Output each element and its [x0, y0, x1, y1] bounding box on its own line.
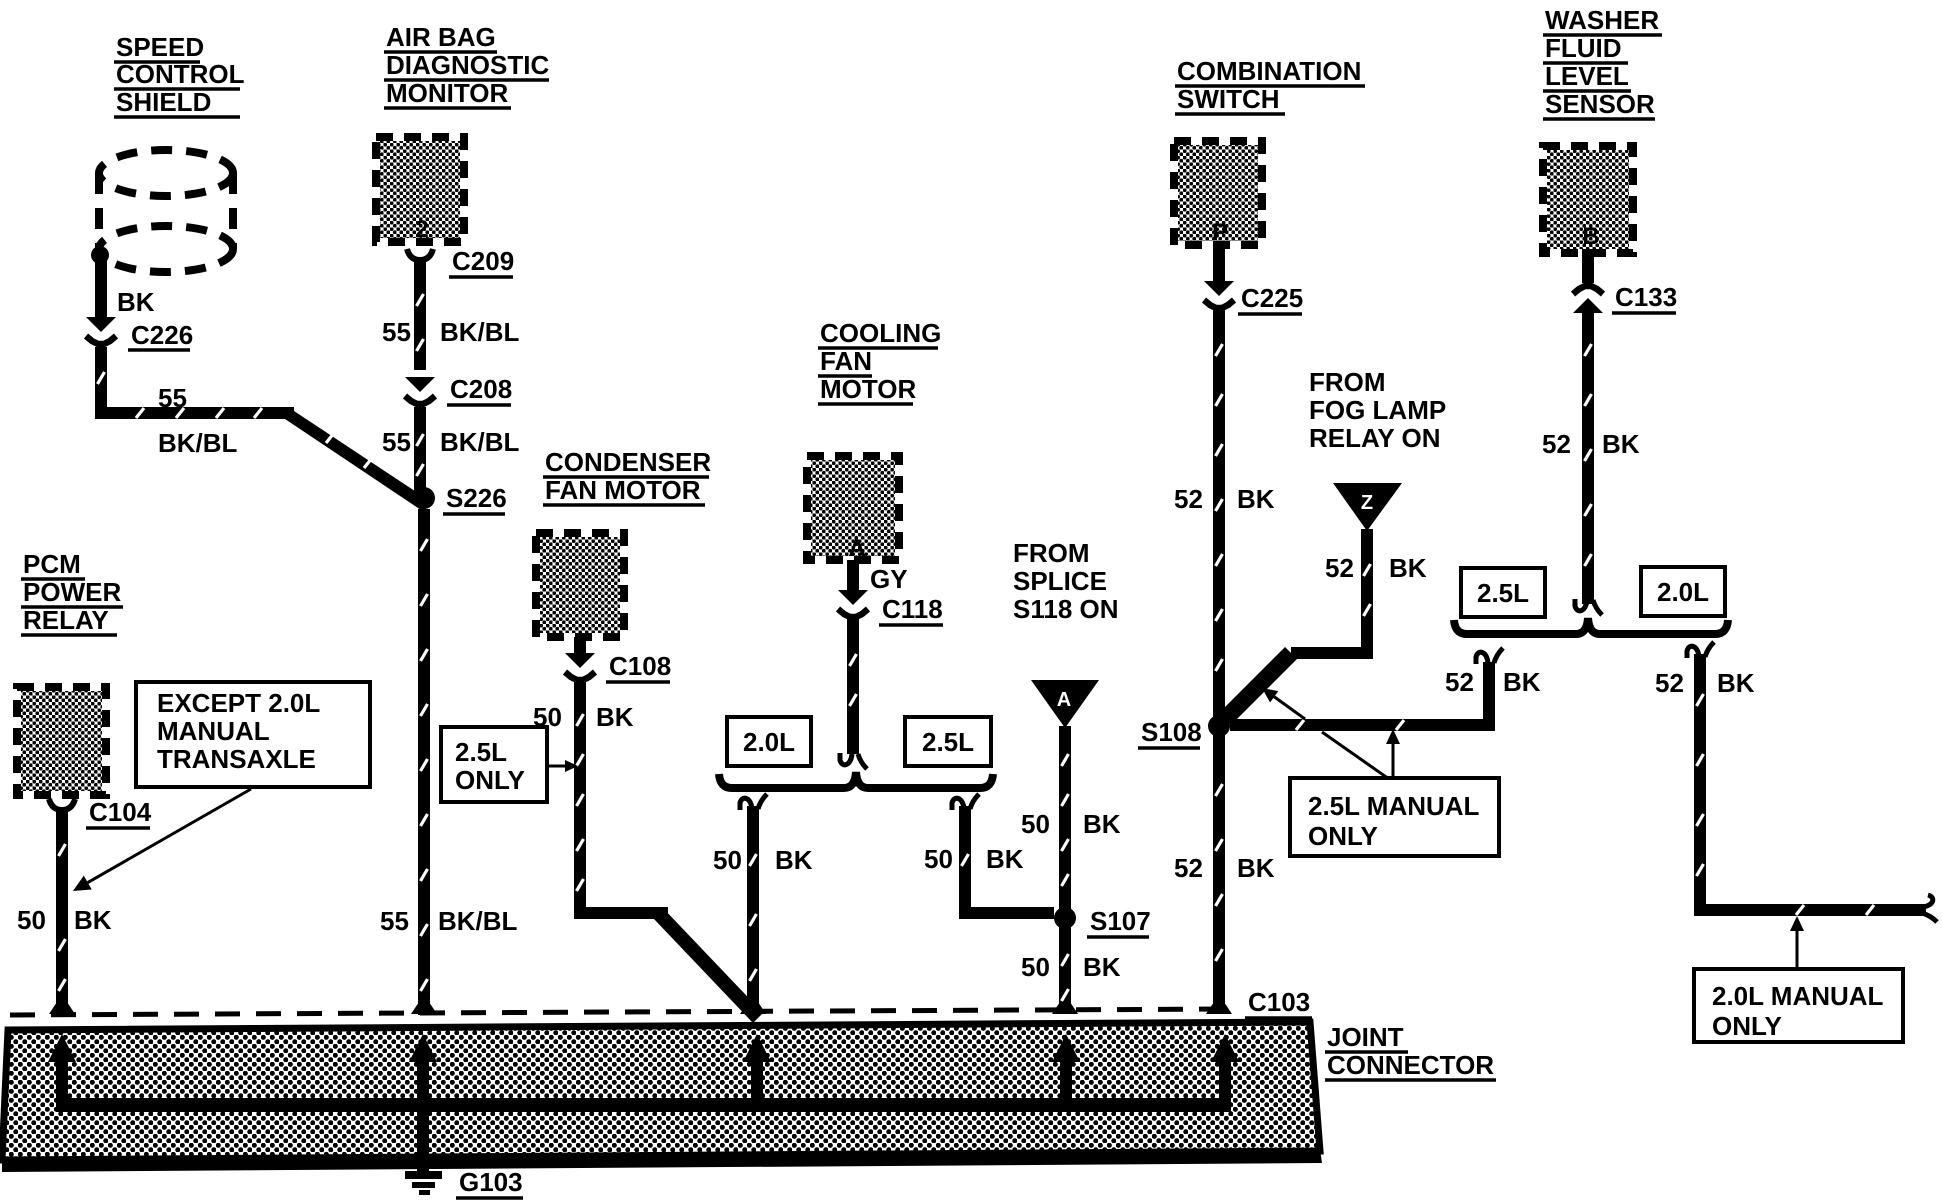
svg-text:2: 2 — [415, 216, 428, 243]
connector C226 — [86, 317, 193, 350]
svg-text:C226: C226 — [131, 320, 193, 350]
splice S226 — [413, 483, 507, 514]
wire: triangle Z down / left / diagonal to S108 — [1219, 529, 1371, 725]
svg-text:55: 55 — [382, 317, 411, 347]
svg-text:FROM: FROM — [1309, 367, 1386, 397]
label 52 (Z wire) — [1325, 553, 1354, 583]
joint connector body — [2, 1022, 1322, 1172]
label 50 (C108 wire) — [533, 702, 562, 732]
connector C225 — [1204, 245, 1303, 314]
svg-text:MONITOR: MONITOR — [386, 78, 509, 108]
svg-text:2.0L: 2.0L — [743, 727, 795, 757]
wire: C208 to S226 — [414, 407, 426, 492]
svg-text:BK: BK — [1717, 668, 1755, 698]
wire: S108 down to joint connector — [1213, 733, 1225, 1014]
svg-text:ONLY: ONLY — [1712, 1011, 1782, 1041]
callout: 2.5L ONLY — [441, 727, 578, 802]
wire: S226 down to joint connector — [418, 509, 430, 1015]
label BK/BL (C209 wire) — [440, 317, 520, 347]
svg-text:C225: C225 — [1241, 283, 1303, 313]
label BK (C225 wire) — [1237, 484, 1275, 514]
svg-text:AIR BAG: AIR BAG — [386, 22, 496, 52]
svg-text:B: B — [1582, 223, 1599, 250]
svg-text:G103: G103 — [459, 1167, 523, 1197]
label BK (2.5L branch) — [986, 844, 1024, 874]
svg-text:Z: Z — [1361, 492, 1373, 514]
svg-text:52: 52 — [1174, 484, 1203, 514]
svg-text:FOG LAMP: FOG LAMP — [1309, 395, 1446, 425]
PCM power relay box — [17, 687, 106, 795]
svg-text:C133: C133 — [1615, 282, 1677, 312]
splice S108 — [1138, 715, 1230, 748]
connector C118 — [838, 560, 943, 625]
wire: washer 2.0L branch down / right to end hook — [1687, 642, 1937, 922]
svg-text:BK/BL: BK/BL — [440, 427, 520, 457]
label BK/BL (S226 lower wire) — [438, 906, 518, 936]
label 52 (S108 lower wire) — [1174, 853, 1203, 883]
svg-text:2.0L MANUAL: 2.0L MANUAL — [1712, 981, 1884, 1011]
label 52 (C133 wire) — [1542, 429, 1571, 459]
svg-text:SPLICE: SPLICE — [1013, 566, 1107, 596]
splice S107 — [1054, 906, 1151, 937]
svg-text:S108: S108 — [1141, 717, 1202, 747]
svg-text:ONLY: ONLY — [455, 765, 525, 795]
speed control shield (dashed cylinder) — [99, 150, 233, 272]
svg-text:RELAY: RELAY — [23, 605, 109, 635]
svg-text:WASHER: WASHER — [1545, 5, 1659, 35]
label BK (washer 2.0L branch) — [1717, 668, 1755, 698]
svg-text:BK: BK — [1602, 429, 1640, 459]
wire feet at C103 (S107 wire) — [1052, 1002, 1078, 1014]
svg-text:FAN: FAN — [820, 346, 872, 376]
ground G103 — [405, 1104, 523, 1198]
svg-text:SHIELD: SHIELD — [116, 87, 211, 117]
svg-text:2.5L: 2.5L — [1477, 578, 1529, 608]
label BK (C104 wire) — [74, 905, 112, 935]
svg-text:C118: C118 — [882, 594, 943, 624]
label BK (C133 wire) — [1602, 429, 1640, 459]
connector C208 — [405, 374, 512, 405]
triangle Z (fog lamp relay) — [1333, 483, 1402, 531]
washer fluid level sensor box — [1543, 146, 1633, 253]
label 50 (C104 wire) — [17, 905, 46, 935]
callout: EXCEPT 2.0L MANUAL TRANSAXLE with arrow — [73, 682, 370, 891]
svg-text:SENSOR: SENSOR — [1545, 89, 1655, 119]
label 52 (S108 right wire) — [1445, 667, 1474, 697]
label: COMBINATION SWITCH — [1175, 56, 1365, 114]
wire: S108 right and up to washer 2.5L branch — [1230, 648, 1503, 730]
condenser fan motor box — [536, 533, 624, 637]
svg-text:55: 55 — [382, 427, 411, 457]
svg-text:CONDENSER: CONDENSER — [545, 447, 711, 477]
triangle A (from splice S118) — [1031, 680, 1099, 728]
svg-text:BK/BL: BK/BL — [440, 317, 520, 347]
label C103 — [1245, 987, 1312, 1018]
svg-text:BK: BK — [986, 844, 1024, 874]
wire: shield dot down to C226 — [95, 255, 107, 319]
svg-text:50: 50 — [17, 905, 46, 935]
svg-text:COMBINATION: COMBINATION — [1177, 56, 1361, 86]
cooling fan motor box — [807, 456, 899, 562]
label: WASHER FLUID LEVEL SENSOR — [1543, 5, 1662, 119]
label BK (shield wire) — [117, 287, 155, 317]
svg-text:TRANSAXLE: TRANSAXLE — [157, 744, 316, 774]
label 50 (2.0L branch) — [713, 845, 742, 875]
label BK (2.0L branch) — [775, 845, 813, 875]
tag box 2.5L (cooling fan) — [905, 717, 991, 766]
label: CONDENSER FAN MOTOR — [543, 447, 711, 505]
wire feet at C103 (S108 wire) — [1206, 1002, 1232, 1014]
svg-text:SWITCH: SWITCH — [1177, 84, 1280, 114]
svg-text:CONTROL: CONTROL — [116, 59, 245, 89]
svg-text:BK: BK — [1083, 809, 1121, 839]
svg-text:GY: GY — [870, 564, 908, 594]
svg-text:JOINT: JOINT — [1327, 1022, 1404, 1052]
interface line C103 (dashed) — [10, 1009, 1232, 1015]
connector C108 — [565, 637, 671, 682]
label BK (C108 wire) — [596, 702, 634, 732]
svg-text:P: P — [1212, 219, 1228, 246]
connector C104 (cup) — [49, 797, 152, 828]
svg-text:52: 52 — [1174, 853, 1203, 883]
label BK (A wire lower) — [1083, 952, 1121, 982]
svg-text:BK: BK — [1083, 952, 1121, 982]
svg-text:BK: BK — [775, 845, 813, 875]
wire: triangle A down through S107 to joint connector — [1059, 726, 1071, 1014]
label 55 (S226 lower wire) — [380, 906, 409, 936]
label: FROM SPLICE S118 ON — [1013, 538, 1119, 624]
svg-text:S118 ON: S118 ON — [1013, 594, 1119, 624]
svg-text:POWER: POWER — [23, 577, 121, 607]
label 55 (C226 wire) — [158, 383, 187, 413]
svg-text:C208: C208 — [450, 374, 512, 404]
label 50 (A wire upper) — [1021, 809, 1050, 839]
svg-text:50: 50 — [1021, 952, 1050, 982]
svg-text:55: 55 — [158, 383, 187, 413]
wire: C104 down to joint connector — [56, 808, 68, 1014]
label 50 (A wire lower) — [1021, 952, 1050, 982]
svg-text:A: A — [1057, 689, 1071, 711]
svg-text:50: 50 — [713, 845, 742, 875]
callout: 2.5L MANUAL ONLY with arrows — [1262, 688, 1499, 856]
label: COOLING FAN MOTOR — [818, 318, 941, 404]
svg-text:52: 52 — [1542, 429, 1571, 459]
svg-text:LEVEL: LEVEL — [1545, 61, 1629, 91]
wire feet at C103 (C104 wire) — [49, 1002, 75, 1014]
svg-text:A: A — [848, 535, 865, 562]
tag box 2.0L (washer) — [1641, 567, 1725, 616]
svg-text:C103: C103 — [1248, 987, 1310, 1017]
combination switch box — [1174, 141, 1262, 246]
svg-text:BK: BK — [596, 702, 634, 732]
label: PCM POWER RELAY — [21, 549, 123, 635]
svg-text:55: 55 — [380, 906, 409, 936]
label 52 (C225 wire) — [1174, 484, 1203, 514]
svg-text:S107: S107 — [1090, 906, 1151, 936]
svg-text:BK/BL: BK/BL — [158, 428, 238, 458]
label 52 (washer 2.0L branch) — [1655, 668, 1684, 698]
label 55 (C208 wire) — [382, 427, 411, 457]
callout: 2.0L MANUAL ONLY with arrow — [1694, 916, 1903, 1042]
svg-text:FROM: FROM — [1013, 538, 1090, 568]
brace: cooling fan engine option split — [719, 772, 993, 788]
svg-text:COOLING: COOLING — [820, 318, 941, 348]
connector C209 (cup) — [407, 246, 514, 277]
node: shield wire attachment dot — [91, 246, 109, 264]
wire: C226 down / left corner / horizontal / diagonal to S226 — [98, 347, 431, 512]
svg-text:BK: BK — [1237, 484, 1275, 514]
label BK (A wire upper) — [1083, 809, 1121, 839]
label 50 (2.5L branch) — [924, 844, 953, 874]
label: JOINT CONNECTOR — [1325, 1022, 1496, 1080]
wire feet at C103 (S226 wire) — [411, 1002, 437, 1014]
label: AIR BAG DIAGNOSTIC MONITOR — [384, 22, 549, 108]
joint connector internal bus with arrows — [48, 1034, 1239, 1112]
label 55 (C209 wire) — [382, 317, 411, 347]
svg-text:DIAGNOSTIC: DIAGNOSTIC — [386, 50, 549, 80]
connector C133 — [1573, 249, 1677, 313]
wire: C209 to C208 — [414, 258, 426, 370]
svg-text:52: 52 — [1445, 667, 1474, 697]
label: SPEED CONTROL SHIELD — [114, 32, 245, 117]
svg-text:C108: C108 — [609, 651, 671, 681]
svg-text:52: 52 — [1655, 668, 1684, 698]
svg-text:CONNECTOR: CONNECTOR — [1327, 1050, 1494, 1080]
svg-text:BK: BK — [1503, 667, 1541, 697]
svg-text:ONLY: ONLY — [1308, 821, 1378, 851]
svg-text:BK: BK — [1389, 553, 1427, 583]
svg-text:2.5L: 2.5L — [922, 727, 974, 757]
svg-text:EXCEPT 2.0L: EXCEPT 2.0L — [157, 688, 320, 718]
wire: C225 down to S108 — [1213, 309, 1225, 719]
label BK/BL (C208 wire) — [440, 427, 520, 457]
svg-text:BK/BL: BK/BL — [438, 906, 518, 936]
svg-text:MOTOR: MOTOR — [820, 374, 917, 404]
label BK (S108 lower wire) — [1237, 853, 1275, 883]
svg-text:MANUAL: MANUAL — [157, 716, 270, 746]
wire feet at C103 (2.0L branch) — [740, 1002, 766, 1014]
svg-text:FAN MOTOR: FAN MOTOR — [545, 475, 701, 505]
wire: C108 down, corner right, diagonal to joint connector — [577, 681, 764, 1023]
label BK (Z wire) — [1389, 553, 1427, 583]
svg-text:PCM: PCM — [23, 549, 81, 579]
svg-text:2.0L: 2.0L — [1657, 577, 1709, 607]
svg-text:2.5L: 2.5L — [455, 737, 507, 767]
brace: washer engine option split — [1454, 618, 1728, 634]
label BK/BL (C226 wire) — [158, 428, 238, 458]
label 52 (washer 2.5L branch) — [0, 0, 1, 1]
wire: 2.0L branch down to joint connector — [740, 794, 767, 1014]
svg-text:50: 50 — [1021, 809, 1050, 839]
svg-text:RELAY ON: RELAY ON — [1309, 423, 1441, 453]
label BK (S108 right wire) — [1503, 667, 1541, 697]
svg-text:FLUID: FLUID — [1545, 33, 1622, 63]
air bag diagnostic monitor box — [376, 137, 464, 243]
svg-text:SPEED: SPEED — [116, 32, 204, 62]
tag box 2.0L (cooling fan) — [727, 717, 811, 766]
svg-text:52: 52 — [1325, 553, 1354, 583]
label: FROM FOG LAMP RELAY ON — [1309, 367, 1446, 453]
wire: C133 down to washer brace — [1575, 309, 1602, 615]
svg-text:BK: BK — [74, 905, 112, 935]
tag box 2.5L (washer) — [1461, 568, 1545, 617]
svg-text:BK: BK — [1237, 853, 1275, 883]
svg-text:2.5L MANUAL: 2.5L MANUAL — [1308, 791, 1480, 821]
svg-text:50: 50 — [924, 844, 953, 874]
svg-text:BK: BK — [117, 287, 155, 317]
label GY — [870, 564, 908, 594]
svg-text:C209: C209 — [452, 246, 514, 276]
svg-text:C104: C104 — [89, 797, 152, 827]
svg-text:S226: S226 — [446, 483, 507, 513]
wire: 2.5L branch down and right to S107 — [952, 794, 1054, 913]
wire: C118 down to engine-option brace — [840, 618, 867, 769]
